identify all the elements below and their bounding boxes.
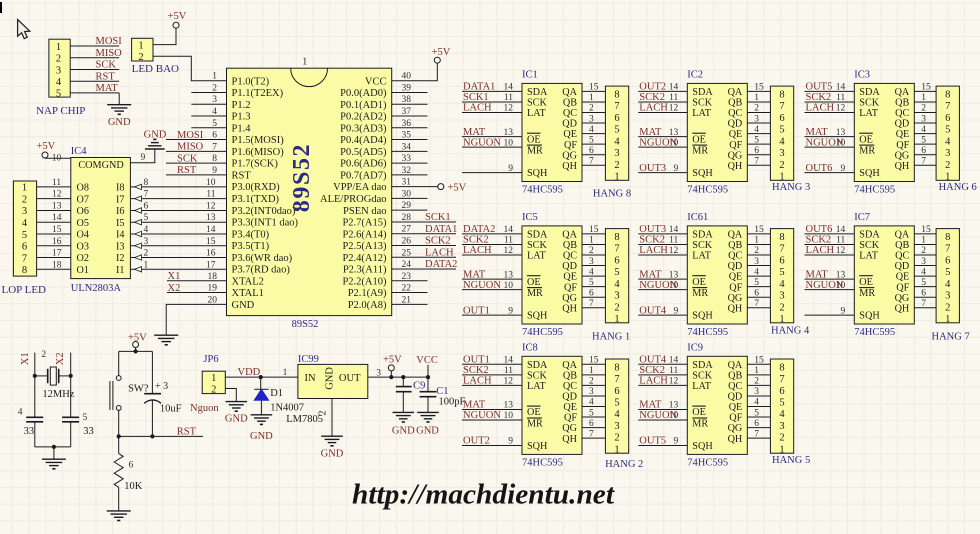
svg-text:3: 3: [945, 291, 950, 302]
svg-text:NGUON: NGUON: [463, 280, 501, 291]
net label LACH: [806, 245, 835, 256]
svg-text:15: 15: [589, 83, 599, 93]
power +5V at regulator output: [383, 354, 402, 377]
svg-text:13: 13: [206, 213, 216, 223]
svg-text:2: 2: [779, 302, 784, 313]
wire regulator pin 2 to ground: [331, 399, 333, 437]
svg-text:GND: GND: [416, 425, 439, 436]
net label MAT: [463, 127, 486, 138]
svg-text:2: 2: [754, 377, 759, 387]
net label MAT: [463, 400, 486, 411]
svg-text:36: 36: [402, 119, 412, 129]
net label MAT: [639, 127, 662, 138]
pin number 9: [841, 306, 846, 316]
wire IC61 pin 5 to header: [747, 286, 770, 288]
net label SCK2: [463, 235, 489, 246]
svg-text:7: 7: [22, 253, 27, 264]
pin number 39: [402, 83, 412, 93]
svg-text:7: 7: [754, 156, 759, 166]
svg-text:OE: OE: [692, 277, 706, 288]
pin number 19: [208, 284, 218, 294]
wire IC8 pin 1 to header: [582, 374, 605, 376]
wire RST node: [119, 435, 203, 437]
svg-text:QF: QF: [729, 413, 742, 424]
svg-text:P1.3: P1.3: [232, 112, 251, 123]
pin number 6: [754, 146, 759, 156]
svg-text:4: 4: [921, 267, 926, 277]
svg-text:1: 1: [56, 42, 61, 53]
svg-text:QB: QB: [895, 240, 909, 251]
svg-text:ALE/PROGdao: ALE/PROGdao: [320, 194, 387, 205]
svg-text:39: 39: [402, 83, 412, 93]
svg-text:QH: QH: [728, 303, 743, 314]
svg-text:LACH: LACH: [639, 103, 668, 114]
wire 89S52 pin 25 net LACH: [392, 256, 456, 258]
pin number 6: [921, 288, 926, 298]
svg-text:IC8: IC8: [522, 342, 538, 353]
svg-text:14: 14: [836, 225, 846, 235]
svg-text:3: 3: [754, 387, 759, 397]
svg-text:15: 15: [921, 225, 931, 235]
IC9 internal pin names: [692, 360, 743, 452]
svg-text:QC: QC: [728, 251, 742, 262]
svg-text:4: 4: [779, 136, 785, 147]
wire LED BAO pin 1 to +5V: [153, 28, 176, 44]
svg-text:2: 2: [589, 377, 594, 387]
wire IC4 pin 3 to 89S52 pin 15: [130, 243, 226, 248]
pin number 4: [589, 125, 594, 135]
pin number 3: [212, 95, 217, 105]
ground GND below NAP CHIP: [107, 105, 131, 128]
pin number 27: [402, 225, 412, 235]
svg-text:+5V: +5V: [383, 354, 402, 365]
svg-text:4: 4: [18, 408, 23, 418]
wire IC9 pin 2 to header: [747, 384, 770, 386]
wire IC5 pin 5 to header: [582, 286, 605, 288]
pin number 10: [504, 281, 514, 291]
svg-text:33: 33: [83, 426, 94, 437]
svg-text:QC: QC: [895, 108, 909, 119]
svg-text:33: 33: [24, 426, 34, 437]
svg-text:PSEN dao: PSEN dao: [343, 206, 386, 217]
svg-text:NGUON: NGUON: [806, 280, 844, 291]
svg-text:P3.1(TXD): P3.1(TXD): [232, 194, 280, 205]
wire 89S52 pin 22: [392, 292, 428, 294]
svg-text:1: 1: [754, 236, 759, 246]
svg-text:DATA1: DATA1: [463, 82, 495, 93]
pin number 5: [754, 278, 759, 288]
svg-text:MAT: MAT: [806, 269, 829, 280]
svg-text:15: 15: [921, 83, 931, 93]
wire IC9 pin 14 net OUT4: [638, 363, 687, 365]
wire 89S52 pin 2: [191, 91, 226, 93]
junction X2-crystal: [69, 374, 73, 378]
svg-text:18: 18: [208, 272, 218, 282]
svg-text:LACH: LACH: [425, 247, 454, 258]
svg-text:5: 5: [754, 135, 759, 145]
net label MISO: [177, 142, 204, 153]
svg-text:38: 38: [402, 95, 412, 105]
wire IC2 pin 2 to header: [747, 112, 770, 114]
svg-text:LAT: LAT: [859, 251, 878, 262]
svg-text:LACH: LACH: [806, 103, 835, 114]
svg-text:NGUON: NGUON: [639, 280, 677, 291]
net label OUT2: [463, 436, 490, 447]
svg-text:MR: MR: [692, 146, 708, 157]
svg-text:4: 4: [56, 77, 62, 88]
pin number 12: [206, 201, 216, 211]
wire IC8 pin 4 to header: [582, 406, 605, 408]
svg-text:5: 5: [779, 267, 784, 278]
svg-text:1: 1: [283, 368, 288, 378]
svg-text:P1.0(T2): P1.0(T2): [232, 76, 270, 87]
pin number 15: [589, 356, 599, 366]
svg-text:X1: X1: [168, 271, 181, 282]
wire 89S52 pin 34: [392, 150, 428, 152]
pin number 6: [589, 146, 594, 156]
svg-text:10: 10: [504, 138, 514, 148]
svg-text:9: 9: [674, 164, 679, 174]
svg-text:74HC595: 74HC595: [687, 457, 728, 468]
svg-text:3: 3: [212, 95, 217, 105]
svg-text:IN: IN: [305, 373, 316, 384]
pin number 7: [754, 429, 759, 439]
wire IC7 pin 2 to header: [914, 254, 936, 256]
svg-text:2: 2: [589, 104, 594, 114]
svg-text:1: 1: [144, 260, 149, 270]
net label OUT4: [639, 305, 667, 316]
capacitor C1 100pF: [420, 377, 466, 412]
connector header HANG 4: [770, 229, 810, 337]
svg-text:4: 4: [779, 279, 785, 290]
ground at JP6 pin 2: [225, 402, 248, 425]
net label SCK2: [425, 236, 451, 247]
svg-text:15: 15: [206, 237, 216, 247]
svg-text:30: 30: [402, 189, 412, 199]
svg-text:5: 5: [614, 267, 619, 278]
pin number 15: [921, 83, 931, 93]
pin number 13: [206, 213, 216, 223]
net label LACH: [639, 245, 668, 256]
svg-text:4: 4: [754, 125, 759, 135]
svg-text:QA: QA: [895, 230, 910, 241]
svg-text:8: 8: [614, 232, 619, 243]
wire IC1 pin 6 to header: [582, 154, 605, 156]
wire LOP LED pin 4 to IC4 pin 14: [37, 221, 71, 223]
svg-text:6: 6: [779, 255, 784, 266]
svg-text:P0.3(AD3): P0.3(AD3): [340, 123, 387, 134]
svg-text:P2.5(A13): P2.5(A13): [342, 241, 387, 252]
wire crystal caps to ground: [35, 446, 71, 448]
svg-text:QE: QE: [729, 129, 743, 140]
net label LACH: [639, 376, 668, 387]
svg-text:SQH: SQH: [692, 311, 713, 322]
net label OUT3: [639, 163, 666, 174]
svg-text:74HC595: 74HC595: [854, 185, 895, 196]
svg-text:MISO: MISO: [177, 142, 204, 153]
svg-text:2: 2: [754, 246, 759, 256]
power +5V at IC4 pin 10: [37, 141, 56, 158]
wire IC61 pin 7 to header: [747, 307, 770, 309]
wire IC61 pin 3 to header: [747, 265, 770, 267]
svg-text:OUT5: OUT5: [806, 82, 833, 93]
wire LOP LED pin 1 to IC4 pin 11: [37, 186, 71, 188]
wire 89S52 pin 27 net DATA1: [392, 233, 456, 235]
wire IC5 pin 11 net SCK2: [462, 243, 522, 245]
pin number 40: [402, 72, 412, 82]
svg-text:+ 3: + 3: [155, 381, 168, 392]
svg-text:HANG 6: HANG 6: [939, 182, 977, 193]
svg-text:28: 28: [402, 213, 412, 223]
pin number 3: [589, 114, 594, 124]
pin number 1: [921, 93, 926, 103]
svg-text:18: 18: [52, 260, 62, 270]
wire IC1 pin 14 net DATA1: [462, 90, 522, 92]
svg-text:X1: X1: [20, 352, 31, 365]
svg-text:1: 1: [614, 172, 619, 183]
svg-text:11: 11: [669, 236, 678, 246]
svg-text:6: 6: [921, 146, 926, 156]
wire IC2 pin 11 net SCK2: [638, 101, 687, 103]
svg-text:LACH: LACH: [639, 245, 668, 256]
svg-text:QE: QE: [563, 402, 577, 413]
svg-text:8: 8: [779, 232, 784, 243]
svg-text:MR: MR: [527, 146, 543, 157]
pin number 8: [144, 178, 149, 188]
pin number 10: [504, 411, 514, 421]
svg-text:QH: QH: [895, 303, 910, 314]
connector header HANG 8: [593, 86, 631, 199]
svg-text:+5V: +5V: [128, 333, 147, 344]
wire IC7 pin 7 to header: [914, 307, 936, 309]
svg-text:11: 11: [836, 236, 845, 246]
svg-text:6: 6: [921, 288, 926, 298]
svg-text:SQH: SQH: [527, 311, 548, 322]
crystal X? 12MHz: [35, 367, 75, 400]
pin number 14: [669, 225, 679, 235]
svg-text:7: 7: [589, 156, 594, 166]
svg-text:QD: QD: [728, 392, 743, 403]
svg-text:3: 3: [754, 257, 759, 267]
pin number 9: [674, 306, 679, 316]
net label LACH: [639, 103, 668, 114]
svg-text:2: 2: [144, 249, 149, 259]
svg-text:14: 14: [669, 225, 679, 235]
wire X2 branch: [70, 353, 72, 418]
svg-text:OUT6: OUT6: [806, 224, 833, 235]
pin number 2: [754, 246, 759, 256]
svg-text:5: 5: [56, 89, 61, 100]
pin number 14: [669, 83, 679, 93]
svg-text:8: 8: [945, 232, 950, 243]
svg-text:12: 12: [504, 246, 514, 256]
wire IC8 pin 10 net NGUON: [462, 419, 522, 421]
svg-text:5: 5: [212, 119, 217, 129]
wire IC4 pin 6 to 89S52 pin 12: [130, 208, 226, 213]
svg-text:IC5: IC5: [522, 212, 538, 223]
wire IC4 pin 9 to ground: [130, 149, 154, 163]
net label SCK2: [639, 92, 665, 103]
svg-text:27: 27: [402, 225, 412, 235]
svg-text:1: 1: [921, 236, 926, 246]
svg-text:1: 1: [945, 314, 950, 325]
wire IC2 pin 1 to header: [747, 101, 770, 103]
pin number 2: [589, 246, 594, 256]
svg-text:http://machdientu.net: http://machdientu.net: [352, 480, 615, 511]
svg-text:2: 2: [614, 160, 619, 171]
svg-text:GND: GND: [225, 414, 248, 425]
IC IC1 74HC595 body: [522, 70, 582, 182]
pin number 3: [754, 114, 759, 124]
svg-text:O7: O7: [77, 194, 89, 205]
svg-text:13: 13: [504, 401, 514, 411]
svg-text:34: 34: [402, 142, 412, 152]
svg-text:O2: O2: [77, 253, 89, 264]
svg-text:16: 16: [206, 249, 216, 259]
svg-text:QH: QH: [728, 161, 743, 172]
pin number 37: [402, 107, 412, 117]
svg-text:1: 1: [779, 314, 784, 325]
screen artifact bar: [0, 2, 2, 13]
wire X1 branch: [34, 353, 36, 418]
wire IC7 pin 15 to header: [914, 233, 936, 235]
svg-text:OUT2: OUT2: [463, 436, 490, 447]
part label 74HC595 of IC3: [854, 185, 895, 196]
wire JP6 pin 2 to ground: [225, 389, 236, 402]
pin number 9: [212, 166, 217, 176]
pin number 13: [669, 270, 679, 280]
net label NGUON: [639, 137, 677, 148]
svg-text:P1.5(MOSI): P1.5(MOSI): [232, 135, 285, 146]
svg-text:89S52: 89S52: [292, 319, 319, 330]
wire 89S52 pin 30: [392, 197, 428, 199]
wire IC8 pin 13 net MAT: [462, 409, 522, 411]
svg-text:12: 12: [669, 246, 679, 256]
switch SW? push button: [110, 351, 149, 436]
svg-text:SCK2: SCK2: [639, 92, 665, 103]
svg-text:RST: RST: [177, 427, 197, 438]
svg-text:QB: QB: [728, 98, 742, 109]
svg-text:QA: QA: [562, 230, 577, 241]
svg-text:QH: QH: [728, 434, 743, 445]
svg-text:1: 1: [302, 57, 307, 68]
wire IC2 pin 7 to header: [747, 164, 770, 166]
svg-text:QF: QF: [564, 282, 577, 293]
wire regulator OUT to VCC: [368, 376, 428, 378]
wire IC7 pin 6 to header: [914, 296, 936, 298]
wire IC7 pin 4 to header: [914, 275, 936, 277]
svg-text:SCK: SCK: [527, 240, 547, 251]
net label RST: [177, 427, 197, 438]
svg-text:QH: QH: [895, 161, 910, 172]
net label MOSI: [96, 36, 123, 47]
wire IC8 pin 2 to header: [582, 384, 605, 386]
net label SCK2: [639, 365, 665, 376]
wire IC2 pin 12 net LACH: [638, 112, 687, 114]
wire IC3 pin 9 net OUT6: [805, 172, 855, 174]
svg-text:P0.4(AD4): P0.4(AD4): [340, 135, 387, 146]
svg-text:MISO: MISO: [96, 48, 123, 59]
svg-text:9: 9: [212, 166, 217, 176]
junction cap-RST: [150, 434, 154, 438]
svg-text:7: 7: [779, 101, 784, 112]
svg-text:P3.5(T1): P3.5(T1): [232, 241, 270, 252]
wire 89S52 pin 28 net SCK1: [392, 221, 456, 223]
svg-text:12: 12: [836, 104, 846, 114]
pin number 14: [836, 83, 846, 93]
svg-text:1: 1: [589, 366, 594, 376]
wire 89S52 pin 20 to ground: [166, 304, 226, 335]
part label 74HC595 of IC9: [687, 457, 728, 468]
svg-text:HANG 3: HANG 3: [772, 182, 810, 193]
ground below 89S52 pin 20: [154, 335, 178, 345]
svg-text:1: 1: [754, 366, 759, 376]
power +5V above LED BAO: [168, 11, 187, 28]
wire IC61 pin 11 net SCK2: [638, 243, 687, 245]
svg-text:15: 15: [589, 225, 599, 235]
pin number 2: [754, 377, 759, 387]
svg-text:6: 6: [754, 288, 759, 298]
svg-text:11: 11: [669, 366, 678, 376]
pin number 6: [754, 419, 759, 429]
svg-text:25: 25: [402, 248, 412, 258]
wire IC2 pin 4 to header: [747, 133, 770, 135]
pin number 10: [836, 281, 846, 291]
wire NAP CHIP pin 3 net SCK: [70, 69, 119, 71]
svg-text:P0.2(AD2): P0.2(AD2): [340, 112, 387, 123]
pin number 2: [589, 104, 594, 114]
wire LED BAO pin 2 to 89S52 pin 1: [153, 56, 227, 80]
pin number 9: [508, 437, 513, 447]
svg-text:P1.2: P1.2: [232, 100, 251, 111]
wire IC61 pin 4 to header: [747, 275, 770, 277]
pin number 13: [669, 128, 679, 138]
IC IC99 LM7805 regulator body: [286, 354, 368, 425]
connector header HANG 3: [770, 86, 810, 193]
pin number 11: [504, 236, 513, 246]
svg-text:MOSI: MOSI: [96, 36, 123, 47]
svg-text:1N4007: 1N4007: [270, 402, 304, 413]
svg-text:QB: QB: [728, 240, 742, 251]
ground below regulator: [321, 436, 344, 459]
svg-text:10: 10: [504, 411, 514, 421]
net label X1 (rotated): [20, 352, 31, 365]
svg-text:GND: GND: [232, 300, 255, 311]
wire IC9 pin 12 net LACH: [638, 384, 687, 386]
wire IC3 pin 1 to header: [914, 101, 936, 103]
svg-text:7: 7: [779, 374, 784, 385]
svg-text:74HC595: 74HC595: [687, 185, 728, 196]
svg-text:7: 7: [921, 156, 926, 166]
wire LOP LED pin 8 to IC4 pin 18: [37, 268, 71, 270]
wire IC3 pin 2 to header: [914, 112, 936, 114]
svg-text:12MHz: 12MHz: [42, 389, 74, 400]
pin number 9: [508, 164, 513, 174]
svg-text:LAT: LAT: [527, 251, 546, 262]
svg-text:2: 2: [56, 54, 61, 65]
svg-text:3: 3: [376, 368, 381, 378]
IC IC3 74HC595 body: [854, 70, 914, 182]
pin number 3: [144, 237, 149, 247]
svg-text:7: 7: [945, 101, 950, 112]
svg-text:4: 4: [589, 125, 594, 135]
svg-text:4: 4: [212, 107, 217, 117]
pin number 3: [589, 387, 594, 397]
wire NAP CHIP pin 5 net MAT: [70, 92, 119, 94]
pin number 11: [836, 93, 845, 103]
svg-text:QH: QH: [562, 434, 577, 445]
wire IC1 pin 9: [462, 172, 522, 174]
